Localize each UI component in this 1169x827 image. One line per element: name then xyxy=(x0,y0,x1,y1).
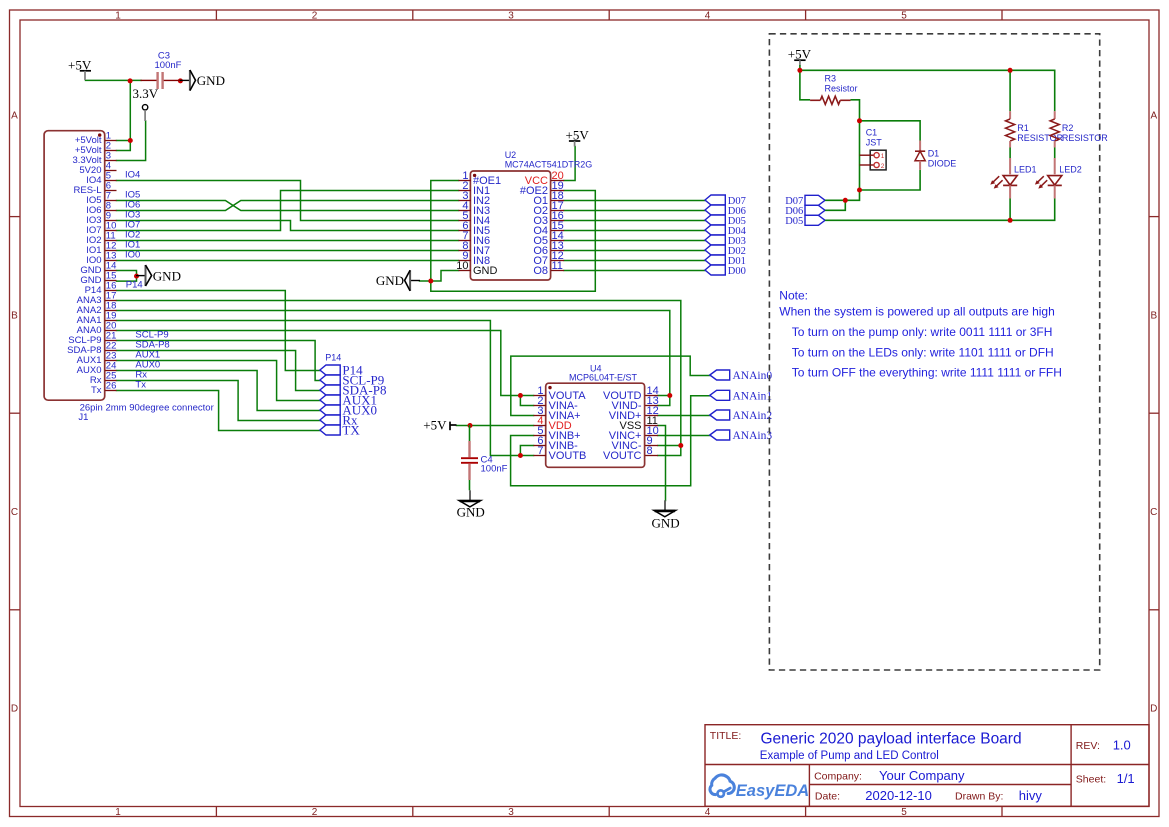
svg-text:8: 8 xyxy=(647,445,653,457)
node U2 GND junction xyxy=(428,279,433,284)
svg-text:3.3V: 3.3V xyxy=(133,86,159,101)
svg-text:B: B xyxy=(11,311,18,322)
svg-text:Sheet:: Sheet: xyxy=(1076,774,1106,786)
resistor R3 xyxy=(810,74,857,105)
svg-text:B: B xyxy=(1150,311,1157,322)
svg-text:100nF: 100nF xyxy=(155,60,182,71)
node R3/C1/D1 junction xyxy=(857,118,862,123)
svg-text:A: A xyxy=(1150,111,1157,122)
node C3 right junction xyxy=(178,78,183,83)
svg-text:MC74ACT541DTR2G: MC74ACT541DTR2G xyxy=(505,160,593,170)
wire O4 to D04 xyxy=(564,230,705,232)
svg-text:ANAin0: ANAin0 xyxy=(733,370,773,382)
wire D07 D06 to C1 pin2 xyxy=(825,190,859,210)
wire ANA0 to VOUTA xyxy=(117,331,534,396)
svg-text:ANAin2: ANAin2 xyxy=(733,410,773,422)
svg-text:+5V: +5V xyxy=(788,47,812,62)
svg-text:LED2: LED2 xyxy=(1059,165,1082,175)
wire ANAin0 to VINA+ xyxy=(511,356,711,415)
connector C1 JST xyxy=(860,128,887,170)
svg-text:11: 11 xyxy=(552,260,563,272)
wire AUX1 xyxy=(117,361,321,401)
wire Tx xyxy=(117,391,321,431)
svg-text:Company:: Company: xyxy=(814,771,862,783)
resistor R2 xyxy=(1050,111,1108,174)
svg-text:J1: J1 xyxy=(78,412,88,423)
svg-text:GND: GND xyxy=(153,268,181,283)
svg-text:IO0: IO0 xyxy=(125,250,140,261)
svg-text:A: A xyxy=(11,111,18,122)
svg-text:REV:: REV: xyxy=(1076,740,1100,752)
wire IO2 xyxy=(117,240,459,242)
wire U4 pin2 VINA- to VOUTA xyxy=(520,396,533,406)
svg-text:D: D xyxy=(11,704,18,715)
connector J1 xyxy=(44,131,214,423)
wire U4 pin6 VINB- to VOUTB xyxy=(520,446,533,456)
power flag +5V top-left xyxy=(68,57,92,80)
svg-text:Tx: Tx xyxy=(91,385,102,396)
svg-text:GND: GND xyxy=(473,265,498,277)
diode D1 xyxy=(915,141,956,170)
wire O6 to D02 xyxy=(564,250,705,252)
wire IO7 xyxy=(117,191,459,231)
svg-text:Your Company: Your Company xyxy=(879,768,965,783)
wire IO5 xyxy=(117,201,459,211)
svg-text:VOUTB: VOUTB xyxy=(549,450,587,462)
wire O2 to D06 xyxy=(564,210,705,212)
svg-text:IO4: IO4 xyxy=(125,170,140,181)
node J1 pin1 junction xyxy=(128,138,133,143)
node J1 GND junction xyxy=(134,274,139,279)
node R1 top junction xyxy=(1008,68,1013,73)
svg-text:ANAin1: ANAin1 xyxy=(733,391,773,403)
wire Rx xyxy=(117,381,321,421)
net ports D07 D06 D05 in block xyxy=(785,195,825,227)
node C3 left junction xyxy=(128,78,133,83)
svg-text:2: 2 xyxy=(312,807,318,818)
wire D05 bottom rail xyxy=(825,199,1055,221)
node VDD junction xyxy=(468,423,473,428)
wire P14 from J1 pin16 xyxy=(117,291,321,371)
svg-text:U2: U2 xyxy=(505,150,517,160)
wire VDD +5V xyxy=(457,425,534,427)
svg-text:26pin 2mm 90degree connector: 26pin 2mm 90degree connector xyxy=(80,403,214,414)
svg-text:GND: GND xyxy=(652,515,680,530)
node +5V junction xyxy=(797,68,802,73)
wire SDA-P8 xyxy=(117,351,321,391)
wire 3.3V to J1 pin3 xyxy=(117,121,146,161)
svg-text:To turn on the pump only: writ: To turn on the pump only: write 0011 111… xyxy=(792,325,1053,339)
svg-text:10: 10 xyxy=(456,260,468,272)
wire ANA1 to VOUTB xyxy=(117,321,534,456)
wire +5V to C3 xyxy=(86,79,142,81)
power flag 3.3V with circle xyxy=(133,86,159,121)
wire IO1 xyxy=(117,250,459,252)
node D07/D06 junction xyxy=(843,198,848,203)
svg-text:R3: R3 xyxy=(825,74,837,84)
svg-text:C1: C1 xyxy=(866,128,878,138)
svg-text:1/1: 1/1 xyxy=(1117,771,1135,786)
wire ANA2 to VOUTD/VIND- xyxy=(117,311,670,406)
EasyEDA logo xyxy=(710,775,809,800)
svg-text:5: 5 xyxy=(901,807,907,818)
svg-text:TX: TX xyxy=(342,422,360,437)
svg-text:When the system is powered up: When the system is powered up all output… xyxy=(779,305,1054,319)
svg-text:P14: P14 xyxy=(126,280,143,291)
svg-text:Generic 2020 payload interface: Generic 2020 payload interface Board xyxy=(761,731,1022,748)
svg-text:5: 5 xyxy=(901,11,907,22)
wire AUX0 xyxy=(117,371,321,411)
svg-text:R1: R1 xyxy=(1017,123,1029,133)
wire O8 to D00 xyxy=(564,270,705,272)
wire J1 pin1 xyxy=(117,140,131,142)
svg-text:O8: O8 xyxy=(533,265,548,277)
svg-text:1.0: 1.0 xyxy=(1113,738,1131,753)
ground flag GND at J1 pins 14-15 xyxy=(136,265,181,286)
svg-text:RESISTOR: RESISTOR xyxy=(1062,133,1108,143)
wire U2 #OE1 to GND xyxy=(431,181,596,292)
IC U4 MCP6L04T-E/ST xyxy=(534,364,659,468)
svg-text:Date:: Date: xyxy=(815,791,840,803)
svg-text:1: 1 xyxy=(881,153,885,160)
svg-text:1: 1 xyxy=(115,11,121,22)
wire U2 VCC +5V xyxy=(564,147,575,181)
svg-text:4: 4 xyxy=(705,807,711,818)
LED LED1 xyxy=(990,165,1036,199)
svg-text:P14: P14 xyxy=(325,353,341,363)
capacitor C3 xyxy=(141,51,182,90)
svg-text:26: 26 xyxy=(106,381,117,392)
node R1 bottom junction xyxy=(1008,218,1013,223)
svg-text:3: 3 xyxy=(508,807,514,818)
svg-text:C: C xyxy=(11,507,18,518)
svg-text:7: 7 xyxy=(537,445,543,457)
svg-text:Note:: Note: xyxy=(779,289,808,303)
wire ANAin3 to VINC+ xyxy=(658,435,710,437)
wire U2 GND flag link xyxy=(420,271,459,282)
svg-text:D00: D00 xyxy=(728,266,746,277)
dashed block outline xyxy=(769,34,1099,670)
wire +5V down to J1 pins 1,2 xyxy=(117,81,131,151)
svg-text:D1: D1 xyxy=(928,149,940,159)
wire VSS to GND xyxy=(658,426,666,501)
wire IO4 xyxy=(117,181,459,221)
wire O3 to D05 xyxy=(564,220,705,222)
wire O7 to D01 xyxy=(564,260,705,262)
net ports ANAin0-ANAin3 xyxy=(710,370,773,442)
net labels J1 wires xyxy=(125,170,170,391)
svg-text:To turn OFF the everything: wr: To turn OFF the everything: write 1111 1… xyxy=(792,366,1062,380)
node U4 VOUTD junction xyxy=(667,393,672,398)
wire U4 pin9 VINC- xyxy=(658,445,681,447)
svg-text:Resistor: Resistor xyxy=(825,84,858,94)
node C1 pin2 / D1 junction xyxy=(857,188,862,193)
svg-text:1: 1 xyxy=(115,807,121,818)
wire IO3 xyxy=(117,221,459,231)
svg-text:To turn on the LEDs only: writ: To turn on the LEDs only: write 1101 111… xyxy=(792,345,1054,359)
svg-text:GND: GND xyxy=(197,73,225,88)
svg-text:C: C xyxy=(1150,507,1157,518)
wire ANAin2 to VIND+ xyxy=(658,415,710,417)
svg-text:R2: R2 xyxy=(1062,123,1074,133)
svg-text:TITLE:: TITLE: xyxy=(710,730,742,742)
wire +5V rail top xyxy=(800,65,1055,190)
wire IO6 xyxy=(117,201,459,211)
svg-text:+5V: +5V xyxy=(423,417,447,432)
ground symbol below C4 xyxy=(457,490,485,519)
capacitor C4 xyxy=(461,425,508,490)
wire U4 pin14 VOUTD xyxy=(658,395,670,397)
node U4 VOUTA junction xyxy=(518,393,523,398)
svg-text:100nF: 100nF xyxy=(481,464,508,475)
node U4 VOUTB junction xyxy=(518,453,523,458)
svg-text:Example of Pump and LED Contro: Example of Pump and LED Control xyxy=(760,750,939,762)
power flag +5V in block xyxy=(788,47,812,66)
svg-text:2: 2 xyxy=(312,11,318,22)
svg-text:EasyEDA: EasyEDA xyxy=(736,782,809,800)
note text xyxy=(779,289,1062,380)
svg-text:2: 2 xyxy=(881,163,885,170)
wire IO0 xyxy=(117,260,459,262)
ground flag GND top-left xyxy=(180,70,225,91)
power flag +5V at U2 VCC xyxy=(566,128,590,147)
net ports D07-D00 xyxy=(705,195,747,277)
wire ANAin1 to VINB+ xyxy=(511,396,711,486)
svg-text:D05: D05 xyxy=(785,216,803,227)
svg-text:3: 3 xyxy=(508,11,514,22)
svg-text:ANAin3: ANAin3 xyxy=(733,430,773,442)
power flag +5V at U4 VDD xyxy=(423,417,456,432)
svg-text:D: D xyxy=(1150,704,1157,715)
resistor R1 xyxy=(1006,111,1064,174)
svg-text:4: 4 xyxy=(705,11,711,22)
svg-text:DIODE: DIODE xyxy=(928,159,957,169)
net ports P14 group xyxy=(320,353,387,438)
wire O1 to D07 xyxy=(564,200,705,202)
wire O5 to D03 xyxy=(564,240,705,242)
svg-text:Drawn By:: Drawn By: xyxy=(955,791,1003,803)
wire J1 GND pins 14,15 xyxy=(117,271,137,282)
svg-text:MCP6L04T-E/ST: MCP6L04T-E/ST xyxy=(569,373,638,383)
node U4 VINC- junction xyxy=(678,443,683,448)
svg-text:VOUTC: VOUTC xyxy=(603,450,642,462)
ground flag GND at U2 xyxy=(376,270,420,291)
svg-text:2020-12-10: 2020-12-10 xyxy=(865,788,932,803)
wire SCL-P9 xyxy=(117,341,321,381)
wire ANA3 to VINC-/VOUTC xyxy=(117,301,681,456)
ground symbol below VSS xyxy=(652,500,680,530)
svg-text:GND: GND xyxy=(457,505,485,520)
svg-text:hivy: hivy xyxy=(1019,788,1043,803)
svg-text:JST: JST xyxy=(866,138,883,148)
LED LED2 xyxy=(1035,165,1082,199)
svg-text:GND: GND xyxy=(376,273,404,288)
IC U2 MC74ACT541DTR2G xyxy=(456,150,592,280)
svg-text:Tx: Tx xyxy=(135,380,146,391)
svg-text:LED1: LED1 xyxy=(1014,165,1037,175)
